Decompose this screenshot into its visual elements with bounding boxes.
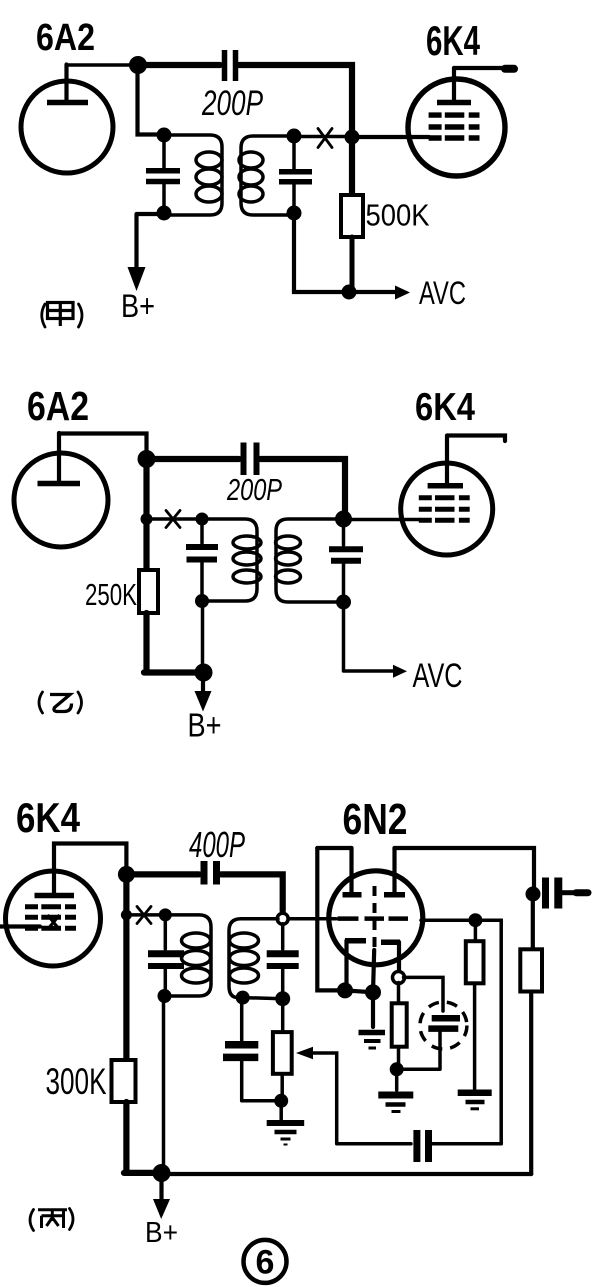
svg-text:6A2: 6A2 <box>36 17 95 59</box>
svg-text:B+: B+ <box>121 288 155 324</box>
svg-text:400P: 400P <box>189 824 245 865</box>
svg-text:6K4: 6K4 <box>426 17 480 64</box>
svg-text:300K: 300K <box>46 1061 107 1102</box>
svg-text:AVC: AVC <box>419 275 466 311</box>
svg-text:6: 6 <box>256 1244 275 1282</box>
svg-text:200P: 200P <box>226 472 282 507</box>
svg-text:250K: 250K <box>85 577 137 612</box>
svg-text:AVC: AVC <box>413 657 463 695</box>
svg-text:200P: 200P <box>201 84 263 123</box>
svg-text:6N2: 6N2 <box>343 795 408 844</box>
svg-text:500K: 500K <box>366 198 430 233</box>
svg-text:6A2: 6A2 <box>27 383 89 429</box>
svg-text:B+: B+ <box>145 1217 178 1249</box>
svg-text:6K4: 6K4 <box>16 794 81 841</box>
svg-text:6K4: 6K4 <box>415 386 475 429</box>
svg-text:B+: B+ <box>188 707 222 744</box>
